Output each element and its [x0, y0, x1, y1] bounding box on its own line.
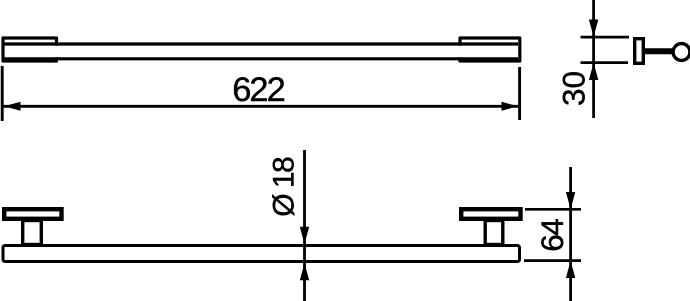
- dimension 64: upper extension tick: [525, 208, 581, 211]
- top view: left wall flange: [4, 209, 61, 219]
- side view: post stem: [644, 48, 673, 54]
- dimension Ø18: lower arrowhead pointing up: [300, 263, 309, 280]
- dimension 622: left arrowhead: [4, 102, 21, 111]
- dimension 64: upper arrowhead pointing down: [566, 192, 575, 209]
- top view: bar outline: [3, 246, 520, 262]
- top view: right wall flange: [461, 209, 520, 219]
- dimension 64: lower extension tick: [524, 259, 581, 262]
- side view: bar cross-section circle: [673, 44, 690, 61]
- dimension 622: right extension line: [518, 67, 521, 120]
- svg-text:Ø 18: Ø 18: [268, 156, 301, 217]
- dimension Ø18: vertical dimension line: [303, 150, 306, 301]
- svg-text:622: 622: [232, 71, 286, 109]
- dimension 622: left extension line: [1, 66, 4, 121]
- dimension 64: vertical dimension line: [569, 167, 572, 301]
- top view: left post stem: [23, 221, 42, 245]
- top view: right post stem: [485, 221, 503, 245]
- dimension 30: lower extension tick: [581, 61, 629, 64]
- front view: right end cap: [460, 38, 520, 61]
- svg-text:64: 64: [534, 218, 570, 252]
- dimension 30: upper extension tick: [581, 36, 630, 39]
- dimension 622: right arrowhead: [502, 102, 519, 111]
- dimension 64: lower arrowhead pointing up: [566, 261, 575, 278]
- front view: left end cap: [3, 38, 57, 61]
- dimension Ø18: upper arrowhead pointing down: [300, 227, 309, 244]
- svg-text:30: 30: [556, 71, 592, 106]
- front view: towel bar tube top line: [4, 42, 518, 45]
- side view: wall flange: [635, 39, 644, 64]
- side view: vertical dimension line for 30: [592, 0, 595, 118]
- front view: towel bar tube bottom line: [4, 57, 518, 60]
- dimension 30: upper arrowhead pointing down: [589, 20, 598, 37]
- dimension 622: dimension line: [3, 105, 519, 108]
- dimension 30: lower arrowhead pointing up: [589, 63, 598, 80]
